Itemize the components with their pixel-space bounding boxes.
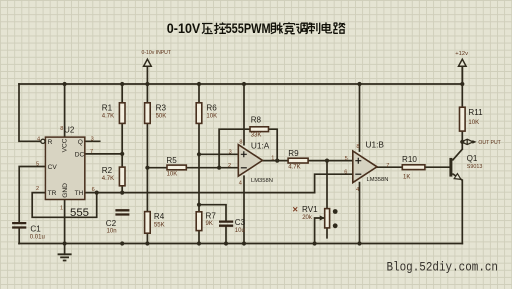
svg-text:20k: 20k: [302, 215, 313, 221]
svg-text:1: 1: [60, 206, 63, 212]
svg-text:4.7K: 4.7K: [102, 114, 114, 120]
svg-text:8: 8: [60, 126, 63, 132]
svg-text:TH: TH: [75, 190, 84, 197]
svg-text:6: 6: [344, 169, 347, 175]
svg-text:C1: C1: [30, 224, 41, 233]
svg-text:R1: R1: [102, 104, 113, 113]
svg-text:S9013: S9013: [467, 164, 483, 170]
svg-text:LM358N: LM358N: [251, 178, 273, 184]
svg-text:Q: Q: [78, 139, 83, 146]
svg-text:U1:B: U1:B: [366, 139, 385, 149]
svg-text:R3: R3: [156, 104, 167, 113]
svg-text:0-10V: 0-10V: [167, 21, 201, 36]
svg-text:555: 555: [70, 207, 89, 219]
svg-text:C3: C3: [235, 218, 246, 227]
svg-text:R11: R11: [468, 108, 483, 117]
svg-text:TR: TR: [48, 190, 57, 197]
svg-text:+12v: +12v: [455, 51, 468, 57]
svg-text:8: 8: [356, 144, 359, 150]
svg-text:9K: 9K: [206, 221, 213, 227]
svg-text:DC: DC: [75, 151, 85, 158]
svg-text:10K: 10K: [468, 120, 479, 126]
svg-text:R2: R2: [102, 166, 113, 175]
svg-text:0.01u: 0.01u: [30, 235, 45, 241]
svg-text:R8: R8: [251, 115, 262, 124]
svg-text:U1:A: U1:A: [251, 140, 270, 150]
svg-text:4.7K: 4.7K: [288, 164, 300, 170]
svg-text:1: 1: [271, 156, 274, 162]
svg-text:6: 6: [92, 187, 95, 193]
svg-text:10n: 10n: [107, 229, 117, 235]
svg-text:33K: 33K: [251, 133, 262, 139]
svg-text:3: 3: [229, 149, 232, 155]
svg-text:10K: 10K: [167, 171, 178, 177]
svg-text:4.7K: 4.7K: [102, 176, 114, 182]
svg-text:R9: R9: [288, 149, 299, 158]
svg-text:R5: R5: [166, 156, 177, 165]
svg-text:4: 4: [239, 180, 242, 186]
svg-text:3: 3: [91, 136, 94, 142]
svg-text:C2: C2: [106, 219, 117, 228]
svg-text:OUT PUT: OUT PUT: [478, 140, 501, 146]
svg-text:GND: GND: [62, 183, 69, 198]
svg-text:2: 2: [228, 163, 231, 169]
svg-text:Q1: Q1: [467, 154, 478, 163]
svg-text:LM358N: LM358N: [367, 177, 389, 183]
svg-text:4: 4: [356, 187, 359, 193]
svg-text:5: 5: [345, 156, 348, 162]
svg-text:R: R: [48, 139, 53, 146]
svg-text:CV: CV: [48, 164, 58, 171]
svg-text:55K: 55K: [154, 222, 165, 228]
svg-text:Blog.52diy.com.cn: Blog.52diy.com.cn: [387, 261, 499, 275]
svg-text:8: 8: [239, 140, 242, 146]
svg-text:7: 7: [386, 163, 389, 169]
svg-text:R4: R4: [154, 212, 165, 221]
svg-text:RV1: RV1: [302, 205, 318, 214]
svg-text:7: 7: [90, 149, 93, 155]
svg-text:10u: 10u: [235, 228, 245, 234]
svg-text:50K: 50K: [156, 113, 167, 119]
svg-text:2: 2: [36, 186, 39, 192]
svg-text:4: 4: [37, 136, 40, 142]
svg-text:R6: R6: [206, 104, 217, 113]
svg-text:VCC: VCC: [62, 138, 69, 152]
svg-text:1K: 1K: [403, 175, 410, 181]
svg-text:U2: U2: [64, 126, 75, 135]
svg-text:R10: R10: [402, 155, 417, 164]
svg-text:R7: R7: [206, 212, 217, 221]
svg-text:10K: 10K: [206, 113, 217, 119]
svg-text:5: 5: [36, 161, 39, 167]
svg-text:0-10v INPUT: 0-10v INPUT: [142, 50, 172, 56]
svg-text:555PWM: 555PWM: [226, 21, 271, 36]
